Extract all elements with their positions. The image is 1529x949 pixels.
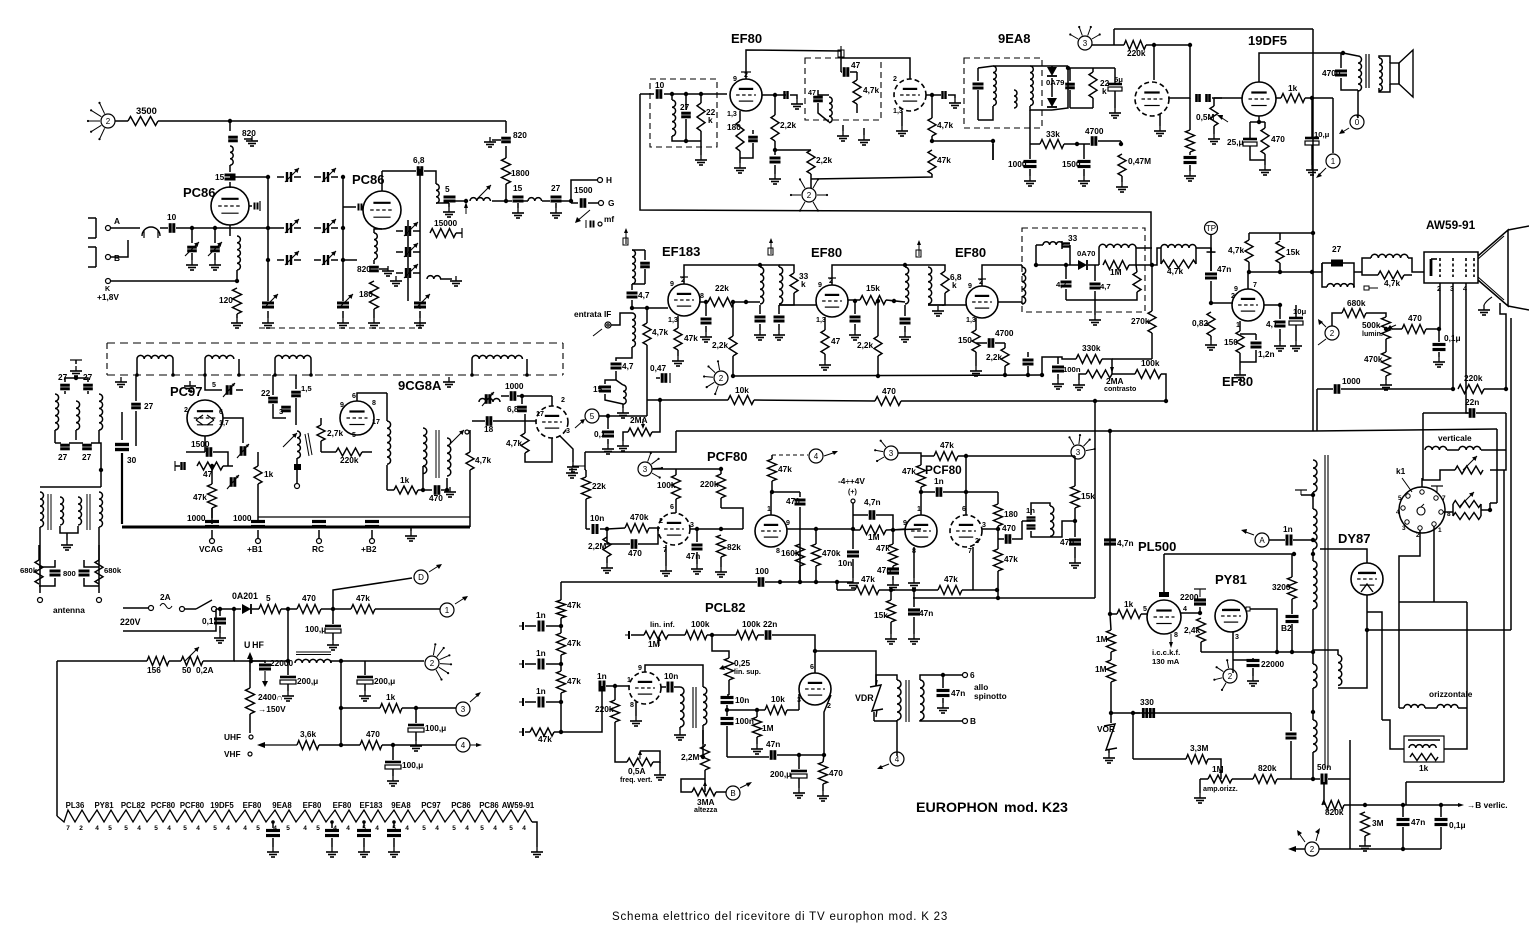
- label 5: [124, 825, 128, 832]
- junction: [309, 373, 313, 377]
- resistor 100k v2: [736, 631, 758, 640]
- junction: [964, 454, 968, 458]
- wire: [638, 528, 658, 544]
- wire: [995, 342, 1005, 344]
- label UHF term: [224, 732, 241, 742]
- pentode 19DF5: [1242, 82, 1276, 116]
- wire: [1426, 328, 1439, 330]
- wire: [982, 528, 998, 530]
- wire: [446, 478, 448, 490]
- wire: [1382, 720, 1404, 749]
- capacitor 4,7 e: [1090, 284, 1101, 288]
- resistor 4,7k g: [643, 323, 651, 345]
- junction: [1040, 373, 1044, 377]
- resistor 47k x: [994, 549, 1003, 571]
- ground: [444, 487, 456, 497]
- wire: [274, 359, 276, 375]
- wire: [1120, 141, 1122, 144]
- resistor 2MA contrast: [1086, 370, 1112, 378]
- adjust arrow: [322, 168, 336, 182]
- wire: [920, 675, 943, 680]
- label 100,μ: [425, 723, 446, 733]
- svg-text:5: 5: [480, 825, 484, 832]
- fuse sym: [160, 604, 172, 609]
- wire to vdr: [845, 651, 876, 686]
- wire to grid 2: [779, 304, 816, 306]
- junction: [341, 258, 345, 262]
- junction: [725, 708, 729, 712]
- terminal cap: [625, 631, 629, 639]
- resistor 0,47M: [1118, 154, 1126, 176]
- wire: [244, 138, 252, 140]
- stub: [461, 228, 463, 238]
- junction: [995, 588, 999, 592]
- capacitor 47n s: [692, 545, 703, 549]
- capacitor 10: [170, 223, 174, 233]
- resistor 2,4k: [1197, 618, 1206, 642]
- arrow: [455, 596, 468, 604]
- trimmer capacitor band switch: [324, 223, 328, 233]
- wire: [720, 469, 722, 474]
- wire: [1264, 122, 1266, 128]
- arrow up: [464, 202, 468, 214]
- grid stub: [259, 201, 261, 211]
- svg-text:3: 3: [566, 427, 570, 435]
- wire join: [1207, 251, 1216, 253]
- svg-text:200,μ: 200,μ: [374, 676, 395, 686]
- label 1: [917, 505, 921, 513]
- wire: [1452, 504, 1454, 516]
- ground: [695, 155, 707, 165]
- svg-text:3: 3: [279, 407, 283, 416]
- resistor 15k an: [1276, 241, 1284, 263]
- svg-text:220k: 220k: [1464, 373, 1483, 383]
- svg-text:2: 2: [893, 75, 897, 83]
- wire: [635, 702, 637, 716]
- label 1M: [1096, 634, 1108, 644]
- svg-text:33: 33: [1068, 233, 1078, 243]
- wire: [972, 547, 974, 590]
- label 1000: [187, 513, 206, 523]
- label 4: [405, 825, 409, 832]
- wire down from rail: [505, 121, 507, 133]
- label 27: [551, 183, 561, 193]
- svg-text:17: 17: [372, 418, 380, 426]
- wire: [823, 755, 824, 762]
- pentode PL500: [1147, 600, 1181, 634]
- inductor vert defl b: [1459, 446, 1481, 450]
- svg-text:470k: 470k: [822, 548, 841, 558]
- svg-text:22n: 22n: [763, 619, 777, 629]
- ground: [1274, 341, 1286, 351]
- svg-text:1: 1: [445, 606, 450, 615]
- svg-text:2: 2: [79, 825, 83, 832]
- wire grid row: [787, 528, 853, 530]
- label RC: [312, 544, 324, 554]
- wire: [1052, 66, 1068, 110]
- wire: [295, 375, 297, 389]
- wire plate up: [1247, 272, 1249, 289]
- triode 9EA8: [894, 79, 926, 111]
- label heater PC97: [421, 801, 441, 810]
- capacitor 1n s: [937, 487, 941, 497]
- wire rail to CRT pot: [1313, 429, 1497, 431]
- svg-text:EF183: EF183: [662, 244, 700, 259]
- inductor v: [1327, 284, 1354, 287]
- svg-text:EF80: EF80: [811, 245, 842, 260]
- wire: [272, 822, 274, 828]
- wire: [294, 176, 301, 178]
- svg-text:120: 120: [219, 295, 233, 305]
- inductor vert defl a: [1425, 446, 1447, 450]
- svg-text:22000: 22000: [270, 658, 293, 668]
- wire: [600, 528, 607, 530]
- svg-text:TP: TP: [1206, 224, 1216, 233]
- wire: [1112, 373, 1135, 375]
- label k1: [1396, 466, 1406, 476]
- label heater AW59-91: [502, 801, 535, 810]
- resistor 470 v: [819, 762, 828, 784]
- ground: [773, 330, 785, 340]
- wire: [759, 305, 761, 314]
- wire plate 2: [832, 265, 905, 285]
- label 4,7: [1056, 280, 1067, 289]
- label 5: [1143, 605, 1147, 613]
- ground: [899, 332, 911, 342]
- wire: [1290, 713, 1292, 731]
- svg-text:PY81: PY81: [1215, 572, 1247, 587]
- wire: [852, 529, 854, 549]
- wire: [674, 686, 680, 688]
- label amp orizz: [1203, 785, 1238, 793]
- adjust arrow: [1463, 456, 1477, 470]
- label 47k: [944, 574, 958, 584]
- ground: [819, 360, 831, 370]
- label 4: [465, 825, 469, 832]
- wire: [415, 732, 417, 741]
- wire: [1399, 707, 1404, 709]
- wire: [1083, 169, 1085, 176]
- trimmer arrow: [482, 392, 494, 406]
- label 47n: [1060, 537, 1074, 547]
- svg-text:10k: 10k: [735, 385, 749, 395]
- wire down to heater chain: [56, 661, 58, 816]
- junction: [755, 708, 759, 712]
- wire: [296, 458, 298, 464]
- wire: [1279, 305, 1281, 319]
- resistor 15k t: [887, 600, 896, 622]
- svg-text:9: 9: [786, 519, 790, 527]
- label 0A70: [1077, 249, 1095, 258]
- svg-text:47k: 47k: [567, 638, 581, 648]
- wire: [646, 308, 648, 323]
- pentode EF80 sound: [730, 79, 762, 111]
- svg-text:50n: 50n: [1317, 762, 1331, 772]
- resistor 47: [197, 462, 223, 470]
- label 82k: [727, 542, 741, 552]
- label 2: [681, 276, 685, 284]
- svg-text:3: 3: [461, 705, 466, 714]
- wire down right: [1349, 740, 1351, 849]
- svg-text:0,1: 0,1: [202, 616, 214, 626]
- junction: [135, 373, 139, 377]
- wire anode up: [1163, 554, 1165, 592]
- wire right: [98, 527, 100, 593]
- dashed box quadrature: [805, 58, 881, 120]
- wire: [1425, 707, 1437, 709]
- label 8: [372, 399, 376, 407]
- label 1800: [511, 168, 530, 178]
- wire A to balun: [111, 227, 140, 229]
- wire: [320, 418, 322, 425]
- label EUROPHON: [916, 800, 998, 816]
- svg-text:5: 5: [213, 825, 217, 832]
- wire: [818, 103, 829, 122]
- speaker: [1390, 50, 1413, 97]
- svg-text:k: k: [801, 279, 806, 289]
- svg-text:470: 470: [829, 768, 843, 778]
- label 4: [303, 825, 307, 832]
- capacitor 100n v: [721, 719, 734, 724]
- svg-text:15: 15: [215, 172, 225, 182]
- label 3500: [136, 105, 157, 116]
- label 5: [183, 825, 187, 832]
- wire: [770, 492, 772, 515]
- wire: [373, 309, 375, 318]
- label 2: [561, 396, 565, 404]
- svg-text:180: 180: [359, 289, 373, 299]
- svg-text:47: 47: [203, 469, 213, 479]
- capacitor 30: [115, 445, 129, 450]
- wire: [532, 822, 537, 847]
- wire: [975, 318, 977, 330]
- label 3MA: [697, 797, 715, 807]
- wire: [396, 272, 403, 274]
- svg-text:3: 3: [1235, 633, 1239, 641]
- label 470: [1271, 134, 1285, 144]
- wire: [640, 751, 660, 762]
- label 25,μ: [1227, 137, 1244, 147]
- svg-text:5: 5: [352, 431, 356, 439]
- svg-text:2,2k: 2,2k: [780, 120, 797, 130]
- svg-text:4,7k: 4,7k: [937, 120, 954, 130]
- label 4,7k: [937, 120, 954, 130]
- resistor 100k s: [672, 475, 681, 499]
- ground: [231, 318, 243, 328]
- wire: [1030, 106, 1052, 110]
- stub: [1160, 248, 1162, 264]
- ground: [1306, 165, 1318, 175]
- label 470: [1408, 313, 1422, 323]
- grid capacitor: [255, 203, 258, 210]
- label heater PCL82: [121, 801, 146, 810]
- junction: [719, 527, 723, 531]
- resistor 150 v: [1236, 331, 1244, 353]
- wire: [931, 136, 933, 141]
- label 22: [261, 388, 271, 398]
- svg-text:100: 100: [755, 566, 769, 576]
- junction: [421, 488, 425, 492]
- label 2: [893, 75, 897, 83]
- pot arrow: [1110, 362, 1114, 373]
- stub: [1362, 272, 1378, 275]
- inductor sec: [1030, 66, 1033, 106]
- adjust arrow: [416, 294, 430, 308]
- wire: [856, 104, 858, 113]
- capacitor 4,7n h: [1104, 540, 1116, 544]
- svg-text:470: 470: [366, 729, 380, 739]
- label 9CG8A: [398, 378, 442, 393]
- svg-text:10: 10: [655, 80, 665, 90]
- wire: [525, 438, 552, 462]
- ground: [1205, 340, 1217, 350]
- svg-text:9: 9: [818, 281, 822, 289]
- triode PCL82: [629, 672, 661, 704]
- junction: [1073, 519, 1077, 523]
- wire: [1321, 263, 1323, 272]
- inductor IFT2 sec: [928, 267, 932, 304]
- label 1n: [1026, 506, 1035, 515]
- wire: [1110, 682, 1112, 713]
- svg-text:9: 9: [968, 282, 972, 290]
- svg-text:VHF: VHF: [224, 749, 241, 759]
- label entrata IF: [574, 309, 611, 319]
- resistor 1k lin: [1410, 754, 1438, 761]
- wire: [1061, 241, 1063, 249]
- capacitor 1000 B1: [251, 522, 265, 527]
- wire: [1311, 98, 1313, 138]
- junction: [99, 468, 103, 472]
- T stub: [828, 278, 836, 285]
- wire: [314, 227, 321, 229]
- svg-text:5: 5: [266, 593, 271, 603]
- label PY81: [1215, 572, 1247, 587]
- wire TP down: [1210, 235, 1212, 271]
- wire: [1189, 152, 1191, 155]
- wire: [876, 675, 897, 686]
- wire: [1305, 97, 1333, 99]
- capacitor 100n: [1052, 367, 1064, 371]
- svg-text:100k: 100k: [691, 619, 710, 629]
- svg-text:PC97: PC97: [170, 384, 203, 399]
- wire: [91, 442, 99, 444]
- CRT electrode: [1473, 258, 1475, 277]
- wire: [501, 395, 509, 397]
- terminal: [295, 484, 300, 489]
- junction: [630, 306, 634, 310]
- capacitor f: [1023, 360, 1034, 364]
- junction: [645, 306, 649, 310]
- wire: [314, 259, 321, 261]
- label heater EF80: [333, 801, 352, 810]
- wire: [1110, 613, 1117, 615]
- wire: [606, 557, 608, 563]
- label 4: [375, 825, 379, 832]
- wire: [1141, 613, 1147, 615]
- label 5: [392, 825, 396, 832]
- label 4,7: [1100, 282, 1111, 291]
- resistor 820k b: [1322, 801, 1344, 810]
- svg-text:50: 50: [182, 665, 192, 675]
- wire: [665, 545, 667, 566]
- wire: [287, 663, 289, 675]
- wire: [913, 547, 915, 578]
- svg-text:47n: 47n: [766, 739, 780, 749]
- dashed tuner box top: [107, 342, 563, 344]
- label 4,7k: [1228, 245, 1245, 255]
- wire: [331, 227, 338, 229]
- junction: [339, 659, 343, 663]
- junction: [684, 92, 688, 96]
- stub 0,47: [669, 373, 671, 383]
- wire: [214, 228, 216, 243]
- wire: [1323, 782, 1325, 805]
- wire plate rail: [1249, 271, 1313, 273]
- adjust arrow: [283, 433, 297, 447]
- wire: [505, 146, 507, 158]
- label 220k: [1127, 48, 1146, 58]
- junction: [1488, 508, 1492, 512]
- wire: [229, 165, 231, 172]
- wire: [396, 230, 403, 232]
- svg-text:0,5A: 0,5A: [628, 766, 646, 776]
- svg-text:27: 27: [1332, 244, 1342, 254]
- label 6: [810, 663, 814, 671]
- label 100k: [1141, 358, 1160, 368]
- ground: [602, 444, 614, 454]
- svg-text:100k: 100k: [657, 480, 676, 490]
- wire: [191, 228, 193, 243]
- wire: [1213, 98, 1215, 106]
- terminal 2 d: [1325, 326, 1339, 340]
- inductor series peak: [1371, 254, 1408, 258]
- ground: [512, 208, 524, 218]
- svg-text:22000: 22000: [1261, 659, 1284, 669]
- balun loop: [142, 227, 160, 238]
- trimmer: [227, 385, 231, 395]
- label 4,7k: [863, 85, 880, 95]
- ground: [849, 330, 861, 340]
- wire: [469, 517, 471, 527]
- wire: [1481, 449, 1506, 451]
- wire: [677, 350, 679, 356]
- resistor 470 crt: [1402, 325, 1426, 334]
- svg-text:22: 22: [261, 388, 271, 398]
- junction: [853, 299, 857, 303]
- label heater EF80: [243, 801, 262, 810]
- resistor 270k: [1148, 311, 1156, 333]
- label EF80 sound: [731, 31, 762, 46]
- T top: [70, 359, 82, 361]
- inductor yoke h b: [1437, 705, 1458, 709]
- svg-text:10μ: 10μ: [1293, 307, 1307, 316]
- terminal 4 supply: [456, 738, 470, 752]
- wire: [448, 203, 450, 207]
- PC97 grid arrows: [196, 415, 214, 425]
- terminal VCAG: [210, 539, 215, 544]
- label 15: [593, 384, 603, 394]
- svg-text:220k: 220k: [700, 479, 719, 489]
- capacitor 100u b: [408, 725, 424, 732]
- svg-text:-4÷+4V: -4÷+4V: [838, 476, 865, 486]
- label 820k: [1258, 763, 1277, 773]
- svg-text:1800: 1800: [511, 168, 530, 178]
- junction: [892, 299, 896, 303]
- label 4: [243, 825, 247, 832]
- wire cathode: [374, 229, 382, 233]
- label 9: [818, 281, 822, 289]
- label 1,7: [219, 419, 229, 427]
